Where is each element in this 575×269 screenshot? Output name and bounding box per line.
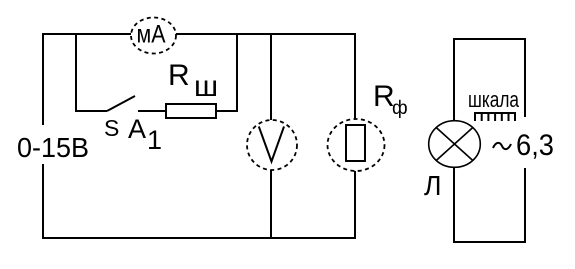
right loop bottom wire [453,241,526,243]
resistor Rsh body [166,104,216,118]
wire shunt branch left vertical [75,33,77,112]
svg-text:6,3: 6,3 [516,129,554,162]
wire switch left [75,110,107,112]
svg-text:ф: ф [392,98,408,119]
wire voltmeter bottom [270,170,272,239]
wire Rf bottom [354,170,356,239]
lamp L [429,121,481,168]
right loop right wire lower [524,168,526,243]
wire shunt branch right vertical [236,33,238,112]
wire top right (milliammeter to Rf branch) [176,33,356,35]
svg-text:R: R [168,59,190,92]
wire left vertical upper [42,33,44,125]
svg-text:ш: ш [194,70,218,103]
svg-text:0-15В: 0-15В [17,132,89,163]
svg-text:шкала: шкала [468,87,520,112]
wire top left (battery to milliammeter) [43,33,131,35]
milliammeter mA [131,18,176,54]
wire voltmeter top [270,33,272,120]
right loop left wire lower [453,168,455,243]
switch S blade [107,96,135,111]
right loop left wire upper [453,38,455,121]
scale ruler icon [474,113,516,121]
right loop top wire [454,38,526,40]
wire switch right [138,110,166,112]
svg-text:Л: Л [424,170,442,201]
wire bottom [42,237,356,239]
AC tilde symbol [493,143,511,149]
svg-text:1: 1 [147,125,162,155]
svg-text:S: S [104,115,119,141]
svg-text:мА: мА [137,21,166,49]
wire left vertical lower [42,164,44,239]
voltmeter V [247,120,297,170]
photoresistor Rf [328,119,385,171]
svg-text:A: A [128,114,146,144]
wire Rf top [354,33,356,120]
right loop right wire upper [524,38,526,117]
wire resistor to right vertical [216,110,238,112]
